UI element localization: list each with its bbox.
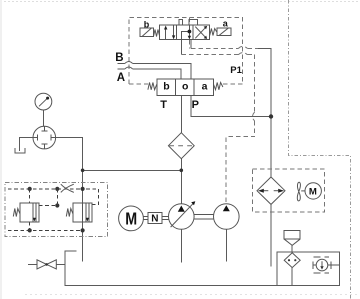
svg-text:A: A (117, 72, 125, 84)
svg-text:b: b (144, 19, 150, 29)
svg-text:T: T (160, 99, 167, 111)
svg-text:b: b (163, 81, 169, 93)
svg-text:B: B (115, 52, 123, 64)
svg-text:N: N (151, 214, 158, 225)
svg-text:P1: P1 (230, 65, 242, 76)
svg-text:M: M (309, 186, 317, 197)
svg-text:M: M (125, 208, 137, 228)
svg-text:a: a (202, 81, 208, 93)
svg-text:o: o (182, 81, 188, 93)
svg-text:P: P (192, 99, 199, 111)
